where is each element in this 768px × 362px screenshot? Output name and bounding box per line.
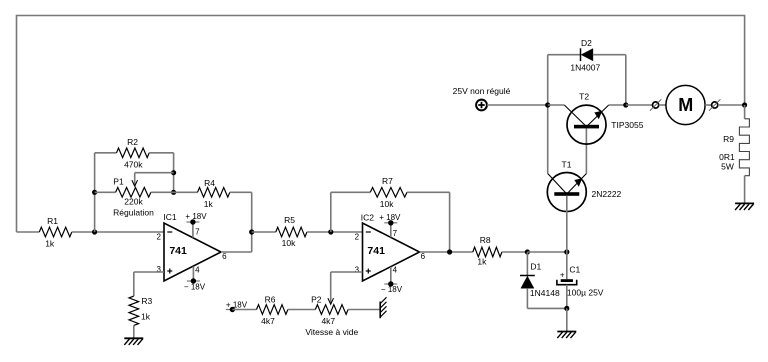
svg-text:741: 741 — [169, 245, 187, 257]
resistor R7 — [370, 176, 407, 209]
svg-text:2: 2 — [156, 233, 161, 242]
svg-text:3: 3 — [355, 266, 360, 275]
node D2/motor junction — [623, 102, 628, 107]
wire to motor left terminal — [626, 104, 653, 106]
svg-text:− 18V: − 18V — [381, 285, 403, 294]
wire R6 to P2 — [288, 309, 315, 311]
svg-text:R9: R9 — [723, 134, 734, 144]
potentiometer P2 4k7 Vitesse a vide — [305, 295, 358, 337]
pin 6 label IC1 — [222, 252, 227, 261]
node R1/P1 junction — [92, 229, 97, 234]
svg-text:220k: 220k — [124, 197, 143, 207]
node motor/R9/loop junction — [742, 102, 747, 107]
op-amp IC2 plus input sign — [366, 269, 371, 274]
node R5/R7 junction — [328, 229, 333, 234]
wire T1 base — [566, 196, 568, 252]
power +18V IC1 — [185, 212, 207, 225]
wire R4 to output node — [230, 192, 252, 252]
wire +18V to R6 — [232, 309, 256, 311]
svg-text:+ 18V: + 18V — [185, 212, 207, 221]
connector motor left — [650, 99, 661, 110]
wire motor to right terminal — [705, 104, 712, 106]
wire T2 emitter to motor node — [609, 104, 626, 106]
wire IC1 pin 4 stub — [192, 266, 194, 281]
svg-text:IC2: IC2 — [361, 213, 375, 223]
pin 6 label IC2 — [421, 252, 426, 261]
wire left feedback vertical — [95, 153, 117, 232]
transistor T1 2N2222 — [547, 160, 621, 212]
svg-text:1k: 1k — [45, 238, 55, 248]
wire IC2 pin 7 stub — [390, 223, 392, 238]
wire R1 to IC1 pin 2 — [72, 231, 164, 233]
svg-text:R5: R5 — [284, 215, 295, 225]
wire R3 to ground — [133, 325, 135, 338]
potentiometer P1 220k Regulation — [113, 176, 154, 217]
svg-text:4: 4 — [195, 265, 200, 274]
svg-text:IC1: IC1 — [163, 212, 177, 222]
wire IC1 output — [221, 251, 252, 253]
wire R9 top lead — [744, 105, 746, 119]
wire output to R5 — [252, 231, 276, 233]
wire IC2 pin 3 to P2 wiper — [331, 272, 363, 303]
arrow P2 wiper — [328, 298, 334, 304]
wire top feedback loop (left/top/right) — [17, 16, 745, 233]
ground R3 — [124, 338, 143, 345]
svg-text:C1: C1 — [569, 265, 580, 275]
arrow P1 wiper — [132, 180, 138, 186]
svg-text:Régulation: Régulation — [113, 207, 154, 217]
svg-text:R7: R7 — [382, 176, 393, 186]
svg-text:25V non régulé: 25V non régulé — [453, 86, 511, 96]
pin 7 label IC2 — [393, 229, 398, 238]
svg-text:10k: 10k — [380, 199, 394, 209]
svg-text:D2: D2 — [581, 38, 592, 48]
svg-text:5W: 5W — [721, 162, 734, 172]
wire terminal to motor — [659, 104, 666, 106]
wire C1 top lead — [566, 252, 568, 279]
power +18V IC2 — [379, 213, 401, 226]
svg-text:R1: R1 — [47, 216, 58, 226]
wire R1 left lead — [17, 231, 40, 233]
wire P1 to R4 — [151, 191, 198, 193]
svg-text:R3: R3 — [141, 296, 152, 306]
svg-text:+ 18V: + 18V — [379, 213, 401, 222]
svg-text:T2: T2 — [579, 92, 589, 102]
op-amp IC1 minus input sign — [167, 231, 172, 233]
svg-text:7: 7 — [195, 228, 200, 237]
svg-text:R6: R6 — [265, 295, 276, 305]
wire IC1 pin 3 to R3 — [134, 272, 164, 296]
pin 4 label IC2 — [393, 266, 398, 275]
svg-text:1k: 1k — [204, 199, 214, 209]
motor M — [666, 85, 705, 124]
pin 4 label IC1 — [195, 265, 200, 274]
wire R2 right lead down — [149, 153, 173, 193]
node R4/output/R5 junction — [249, 229, 254, 234]
node P1 right junction — [171, 190, 176, 195]
svg-text:10k: 10k — [282, 238, 296, 248]
svg-text:1k: 1k — [141, 312, 151, 322]
node R8/D1 junction — [525, 249, 530, 254]
svg-text:7: 7 — [393, 229, 398, 238]
svg-text:6: 6 — [421, 252, 426, 261]
wire D1 node to T1 base node — [527, 251, 566, 253]
svg-text:M: M — [678, 95, 693, 115]
svg-text:4k7: 4k7 — [321, 316, 335, 326]
wire T1 emitter to T2 base — [585, 128, 587, 173]
power +18V bias — [226, 301, 248, 313]
node T1 base/C1 junction — [564, 249, 569, 254]
svg-text:Vitesse à vide: Vitesse à vide — [305, 327, 358, 337]
resistor R2 — [117, 137, 150, 170]
node P1 left junction — [92, 190, 97, 195]
pin 3 label IC1 — [156, 265, 161, 274]
wire D2 right vertical — [593, 55, 626, 105]
wire IC2 output — [420, 251, 473, 253]
svg-text:2N2222: 2N2222 — [592, 189, 622, 199]
wire to ground C1 — [566, 308, 568, 331]
svg-text:1k: 1k — [477, 257, 487, 267]
wire 25V rail — [487, 104, 548, 106]
wire R9 to ground — [744, 176, 746, 204]
resistor R8 — [473, 235, 502, 266]
svg-text:4k7: 4k7 — [261, 316, 275, 326]
resistor R9 0R1 5W — [719, 119, 749, 176]
svg-text:R4: R4 — [204, 178, 215, 188]
pin 2 label IC1 — [156, 233, 161, 242]
svg-text:1N4148: 1N4148 — [530, 288, 560, 298]
svg-text:6: 6 — [222, 252, 227, 261]
ground C1 — [557, 332, 576, 339]
chassis ground near P2 — [380, 297, 386, 318]
resistor R3 — [129, 296, 153, 325]
wire T1 collector to rail — [547, 105, 549, 174]
ground R9 — [735, 203, 754, 210]
svg-text:4: 4 — [393, 266, 398, 275]
wire IC1 pin 7 stub — [192, 222, 194, 238]
svg-text:100µ 25V: 100µ 25V — [567, 288, 604, 298]
wire P1 left lead — [95, 191, 116, 193]
svg-text:R2: R2 — [127, 137, 138, 147]
wire right terminal to R9 node — [718, 104, 745, 106]
resistor R1 — [39, 216, 72, 248]
svg-text:R8: R8 — [480, 235, 491, 245]
diode D1 1N4148 — [520, 262, 560, 299]
op-amp IC2 minus input sign — [366, 231, 371, 233]
wire R7 left vertical — [331, 192, 371, 232]
svg-text:741: 741 — [367, 245, 385, 257]
node output/R7/R8 junction — [447, 249, 452, 254]
capacitor C1 100u 25V — [557, 265, 604, 298]
wire R5 to IC2 pin 2 — [307, 231, 363, 233]
wire D2 left vertical — [548, 55, 581, 105]
resistor R6 — [257, 295, 288, 326]
wire D1 top lead — [526, 252, 528, 276]
svg-text:D1: D1 — [530, 262, 541, 272]
connector motor right — [709, 99, 720, 110]
supply 25V non regule — [453, 86, 511, 111]
svg-text:+: + — [560, 270, 565, 279]
node C1/D1 ground junction — [564, 306, 569, 311]
wire P2 to chassis — [348, 309, 380, 311]
resistor R4 — [198, 178, 230, 209]
node rail/D2/T1 junction — [545, 102, 550, 107]
svg-text:TIP3055: TIP3055 — [611, 120, 643, 130]
wire IC2 pin 4 stub — [390, 267, 392, 284]
resistor R5 — [276, 215, 307, 248]
svg-text:+ 18V: + 18V — [226, 301, 248, 310]
op-amp IC1 741 triangle — [163, 212, 221, 281]
pin 3 label IC2 — [355, 266, 360, 275]
op-amp IC1 plus input sign — [167, 269, 172, 274]
node R2/wiper junction — [171, 170, 176, 175]
svg-text:P1: P1 — [113, 176, 124, 186]
wire P1 wiper — [135, 173, 174, 185]
svg-text:1N4007: 1N4007 — [570, 63, 600, 73]
transistor T2 TIP3055 — [564, 92, 643, 145]
wire R7 right vertical — [407, 192, 450, 252]
power -18V IC2 — [381, 281, 403, 294]
svg-text:P2: P2 — [311, 295, 322, 305]
pin 7 label IC1 — [195, 228, 200, 237]
svg-text:− 18V: − 18V — [184, 283, 206, 292]
wire D1 bottom lead — [527, 288, 566, 308]
svg-text:2: 2 — [355, 233, 360, 242]
pin 2 label IC2 — [355, 233, 360, 242]
op-amp IC2 741 triangle — [361, 213, 420, 282]
power -18V IC1 — [184, 278, 206, 291]
diode D2 1N4007 — [570, 38, 600, 73]
wire R8 to D1 node — [502, 251, 528, 253]
wire C1 bottom lead — [566, 285, 568, 309]
svg-text:T1: T1 — [562, 160, 572, 170]
wire rail to T2 collector — [548, 104, 565, 106]
svg-text:470k: 470k — [124, 160, 143, 170]
